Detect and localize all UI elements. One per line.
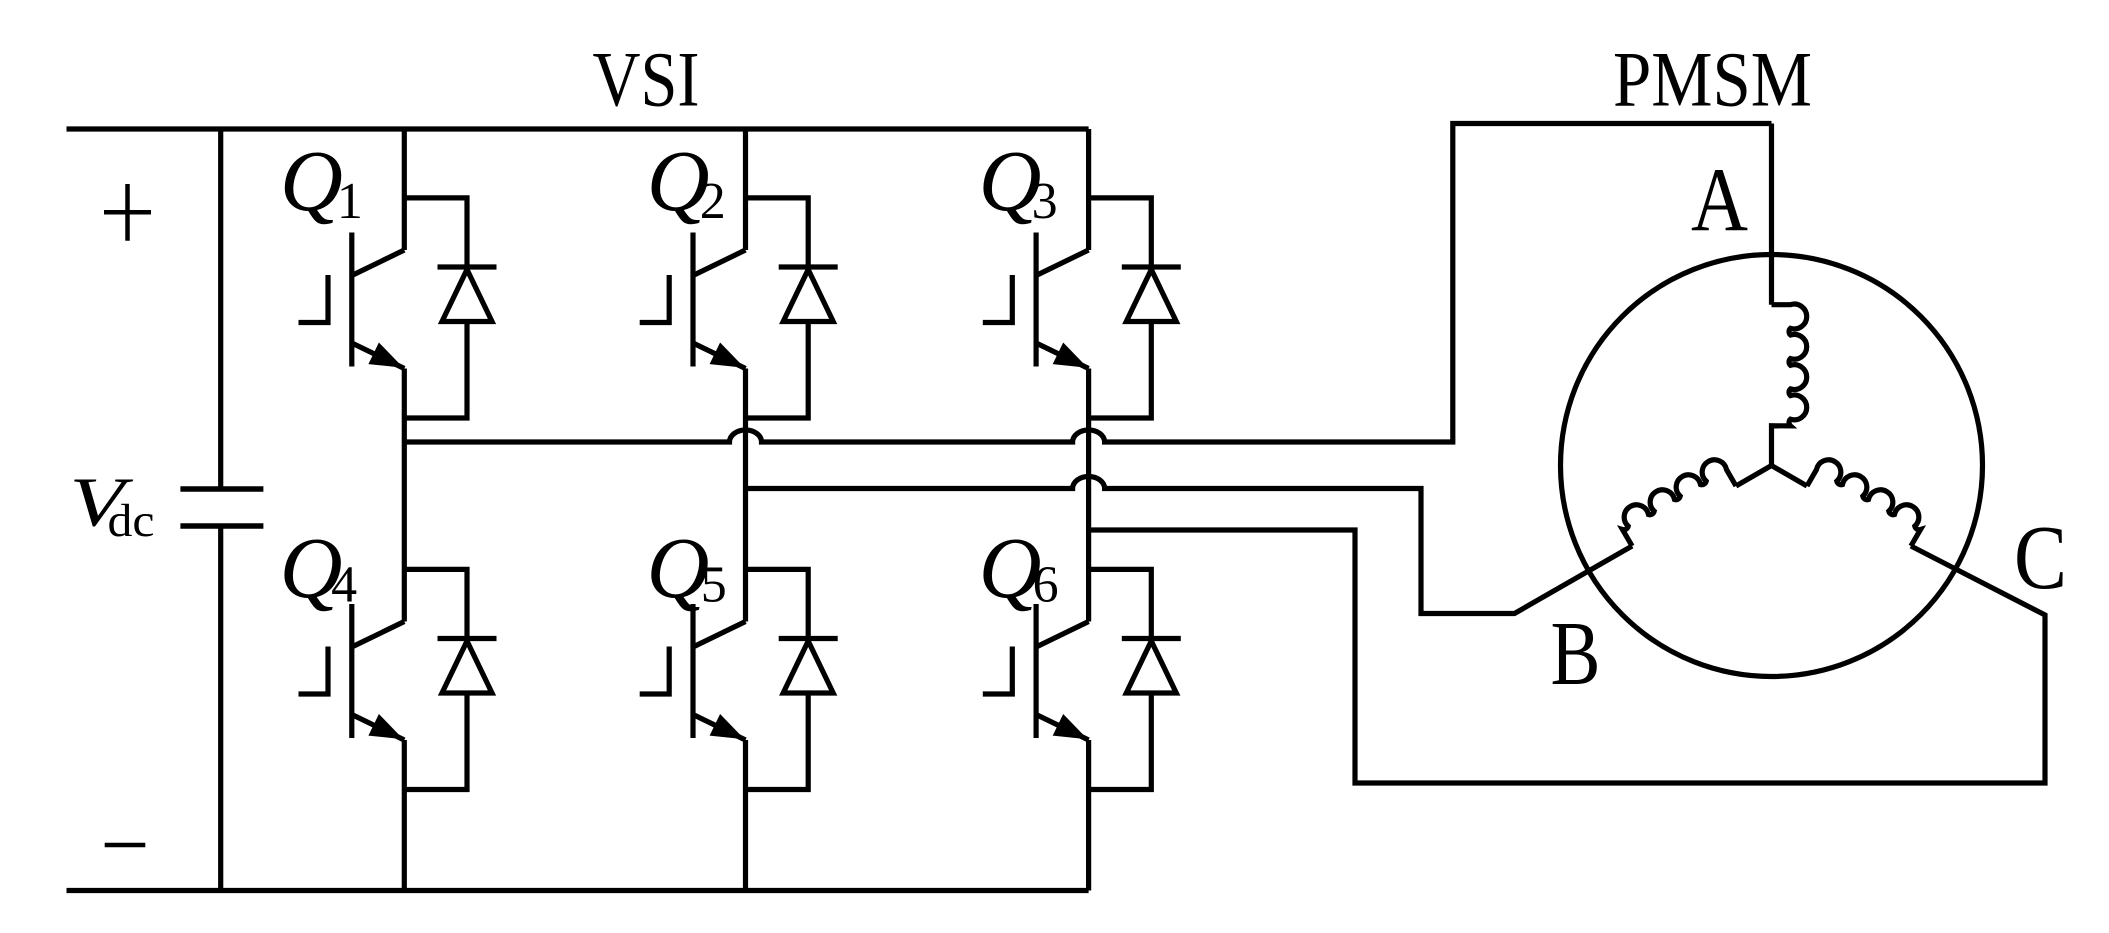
wire: leg 3 collector lead from top rail bbox=[1086, 129, 1091, 250]
svg-text:6: 6 bbox=[1033, 557, 1059, 614]
inductor: phase C winding bbox=[1772, 466, 1808, 487]
wire: phase A output with crossover hops, riser and top run to motor bbox=[404, 124, 1771, 443]
svg-text:dc: dc bbox=[108, 495, 155, 547]
wire: leg 3 emitter lead to bottom rail bbox=[1086, 740, 1091, 891]
wire: leg 3 midpoint vertical (phase node) bbox=[1086, 369, 1091, 622]
diode D1 bbox=[404, 198, 496, 418]
svg-text:PMSM: PMSM bbox=[1613, 36, 1812, 123]
diode D5 bbox=[746, 569, 838, 789]
svg-text:B: B bbox=[1551, 603, 1601, 704]
transistor Q3 bbox=[983, 233, 1089, 369]
wire: DC-link capacitor top lead bbox=[218, 129, 223, 489]
capacitor Vdc DC-link bbox=[180, 489, 263, 526]
wire: phase C output route to motor bbox=[1089, 530, 2045, 783]
transistor Q4 bbox=[299, 604, 405, 740]
diode D2 bbox=[746, 198, 838, 418]
wire: positive DC bus (top rail) bbox=[67, 126, 1089, 131]
svg-text:Q: Q bbox=[280, 132, 343, 229]
svg-text:A: A bbox=[1691, 150, 1748, 251]
wire: negative DC bus (bottom rail) bbox=[67, 888, 1089, 893]
wire: DC-link capacitor bottom lead bbox=[218, 526, 223, 891]
svg-text:1: 1 bbox=[337, 173, 363, 230]
diode D4 bbox=[404, 569, 496, 789]
diode D3 bbox=[1089, 198, 1181, 418]
transistor Q1 bbox=[299, 233, 405, 369]
wire: phase B output with crossover hop and route to motor bbox=[746, 477, 1633, 614]
wire: leg 1 emitter lead to bottom rail bbox=[402, 740, 407, 891]
wire: leg 2 midpoint vertical (phase node) bbox=[743, 369, 748, 622]
wire: leg 1 midpoint vertical (phase node) bbox=[402, 369, 407, 622]
svg-text:C: C bbox=[2014, 507, 2067, 608]
diode D6 bbox=[1089, 569, 1181, 789]
transistor Q2 bbox=[640, 233, 746, 369]
svg-text:4: 4 bbox=[331, 557, 357, 614]
svg-text:VSI: VSI bbox=[593, 36, 700, 123]
transistor Q6 bbox=[983, 604, 1089, 740]
wire: leg 2 collector lead from top rail bbox=[743, 129, 748, 250]
label: minus polarity bbox=[105, 843, 146, 848]
svg-text:3: 3 bbox=[1032, 173, 1058, 230]
PMSM stator circle bbox=[1561, 255, 1983, 677]
label: plus polarity bbox=[104, 184, 151, 241]
wire: phase A motor lead bbox=[1769, 124, 1774, 305]
inductor: phase B winding bbox=[1736, 466, 1772, 487]
svg-text:5: 5 bbox=[701, 557, 727, 614]
transistor Q5 bbox=[640, 604, 746, 740]
inductor: phase A winding bbox=[1772, 304, 1807, 465]
wire: leg 1 collector lead from top rail bbox=[402, 129, 407, 250]
svg-text:2: 2 bbox=[700, 173, 726, 230]
wire: leg 2 emitter lead to bottom rail bbox=[743, 740, 748, 891]
